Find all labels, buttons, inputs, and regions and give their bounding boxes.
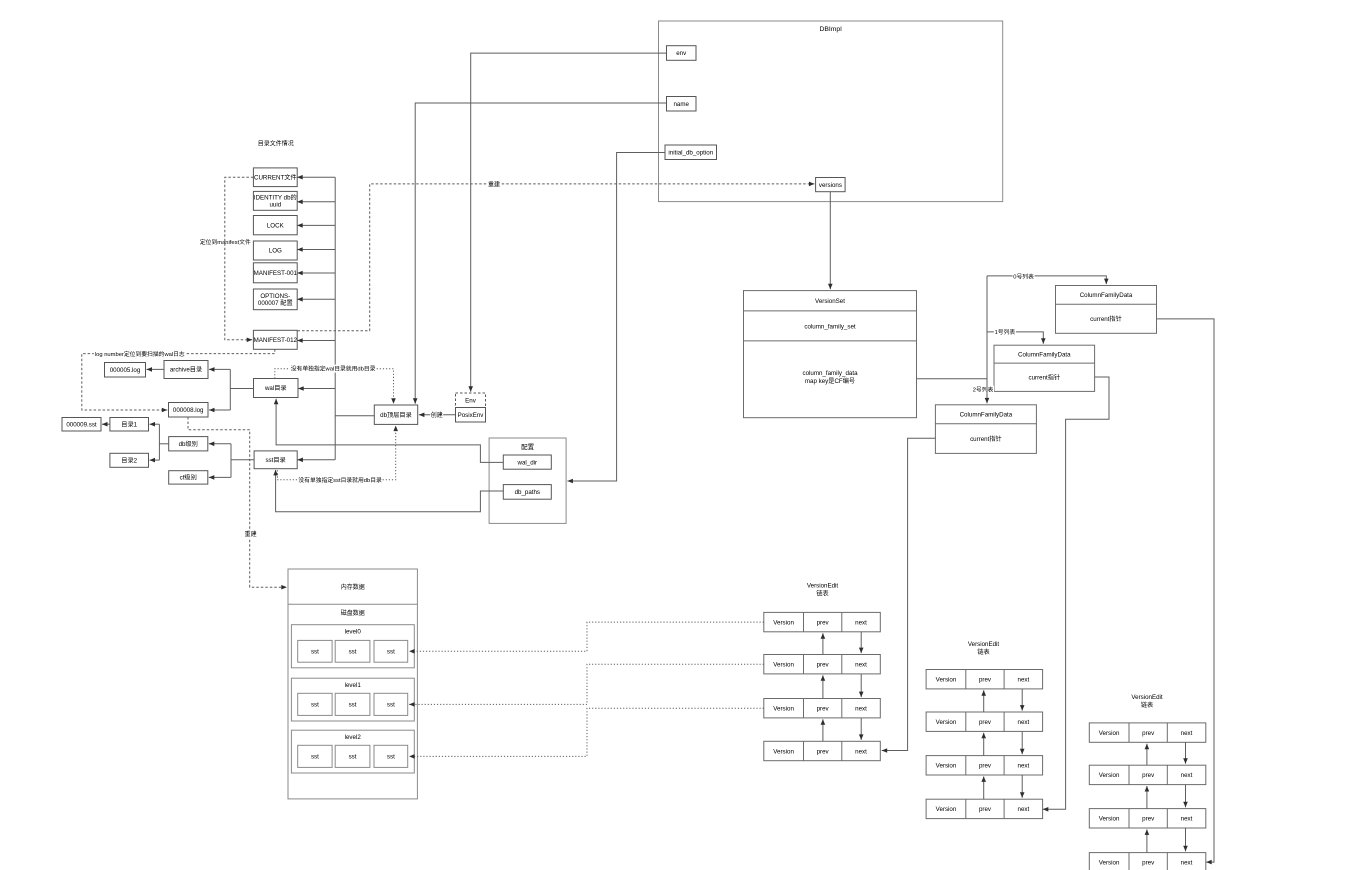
svg-text:配置: 配置 xyxy=(521,441,535,451)
svg-text:0号列表: 0号列表 xyxy=(1013,271,1034,280)
box VersionEdit1 row1 xyxy=(764,612,881,631)
svg-text:目录1: 目录1 xyxy=(121,420,137,429)
svg-text:定位到manifest文件: 定位到manifest文件 xyxy=(200,237,251,246)
svg-text:Version: Version xyxy=(1099,728,1120,737)
svg-text:sst: sst xyxy=(311,700,319,709)
wire db_paths to sst目录 xyxy=(276,470,504,512)
svg-text:Env: Env xyxy=(465,396,477,405)
svg-text:level2: level2 xyxy=(345,732,362,741)
wire VersionSet to cfd junction xyxy=(917,378,988,380)
wire junction vertical wal xyxy=(229,369,231,410)
wire initial_db_option to 配置 xyxy=(567,153,665,482)
wire trunk to sst目录 xyxy=(297,459,335,461)
wire trunk vertical xyxy=(334,177,336,460)
svg-text:sst目录: sst目录 xyxy=(265,455,285,464)
svg-text:Version: Version xyxy=(773,746,794,755)
label VersionEdit3 title xyxy=(1131,692,1163,709)
label 配置 title xyxy=(521,441,535,451)
svg-text:没有单独指定sst目录就用db目录: 没有单独指定sst目录就用db目录 xyxy=(298,475,382,484)
svg-text:db_paths: db_paths xyxy=(515,487,540,496)
label VersionEdit1 title xyxy=(807,581,839,598)
wire name to db顶层目录 xyxy=(415,103,666,404)
wire trunk to MANIFEST-001 xyxy=(297,272,335,274)
svg-text:PosixEnv: PosixEnv xyxy=(458,410,485,419)
wire sst目录 left junction xyxy=(231,459,254,461)
wire junction to 目录1 xyxy=(150,423,160,425)
box env xyxy=(667,46,697,61)
label log number定位到要扫描的wal日志 xyxy=(94,349,186,358)
svg-text:重建: 重建 xyxy=(488,180,500,189)
svg-text:000005.log: 000005.log xyxy=(110,365,141,374)
svg-text:重建: 重建 xyxy=(245,529,257,538)
box level1 sst2 xyxy=(335,693,370,715)
box level0 xyxy=(291,625,414,668)
svg-text:目录文件情况: 目录文件情况 xyxy=(258,139,294,148)
svg-text:sst: sst xyxy=(311,647,319,656)
wire dashed 定位到manifest xyxy=(225,177,254,339)
svg-text:next: next xyxy=(855,704,867,713)
label 1号列表 xyxy=(994,327,1016,336)
box level1 xyxy=(291,678,414,721)
box VersionEdit1 row4 xyxy=(764,741,881,760)
box ColumnFamilyData 2 xyxy=(935,405,1036,454)
box archive目录 xyxy=(164,361,208,379)
svg-text:current指针: current指针 xyxy=(970,434,1002,443)
svg-text:ColumnFamilyData: ColumnFamilyData xyxy=(1080,290,1133,299)
svg-text:链表: 链表 xyxy=(1141,700,1153,709)
wire junction to 目录2 xyxy=(150,459,160,461)
box VersionEdit3 row2 xyxy=(1089,765,1206,784)
svg-text:db顶层目录: db顶层目录 xyxy=(380,410,412,419)
wire VersionEdit2 next arrow 1 xyxy=(1021,689,1023,711)
box db_paths xyxy=(503,485,551,500)
box level0 sst2 xyxy=(335,640,370,662)
wire VersionEdit2 prev arrow 3 xyxy=(983,776,985,799)
wire wal_dir to wal目录 xyxy=(276,399,503,463)
svg-text:level0: level0 xyxy=(345,627,362,636)
svg-text:next: next xyxy=(1181,770,1193,779)
svg-text:archive目录: archive目录 xyxy=(170,365,202,374)
box wal目录 xyxy=(254,379,299,398)
wire dotted row2 to level1 sst xyxy=(409,664,764,704)
svg-text:prev: prev xyxy=(979,761,992,770)
svg-text:目录2: 目录2 xyxy=(121,456,137,465)
box CURRENT文件 xyxy=(253,168,297,187)
svg-text:MANIFEST-012: MANIFEST-012 xyxy=(254,335,298,344)
box wal_dir xyxy=(503,455,551,469)
svg-text:sst: sst xyxy=(387,752,395,761)
box VersionEdit3 row3 xyxy=(1089,809,1206,828)
svg-text:sst: sst xyxy=(349,700,357,709)
wire dotted sst fallback xyxy=(278,426,396,480)
wire PosixEnv 创建 db顶层目录 xyxy=(419,414,456,416)
box 000005.log xyxy=(105,363,146,378)
wire wal目录 left junction xyxy=(230,388,253,390)
box level2 sst1 xyxy=(298,745,332,767)
box VersionEdit3 row1 xyxy=(1089,723,1206,742)
svg-text:next: next xyxy=(855,617,867,626)
box cf级别 xyxy=(169,471,208,484)
svg-text:ColumnFamilyData: ColumnFamilyData xyxy=(960,410,1013,419)
box level1 sst1 xyxy=(298,693,332,715)
box OPTIONS-000007配置 xyxy=(253,289,297,310)
svg-text:磁盘数据: 磁盘数据 xyxy=(341,608,365,617)
box 内存数据 container xyxy=(288,569,417,799)
box VersionEdit2 row3 xyxy=(926,756,1043,775)
box VersionEdit3 row4 xyxy=(1089,853,1206,870)
label 没有单独指定wal目录就用db目录 xyxy=(290,364,376,373)
wire junction to db级别 xyxy=(209,443,231,445)
label VersionEdit2 title xyxy=(968,639,1000,656)
svg-text:LOCK: LOCK xyxy=(267,220,285,229)
wire trunk to OPTIONS xyxy=(297,298,335,300)
wire VersionEdit3 prev arrow 2 xyxy=(1146,786,1148,809)
svg-text:Version: Version xyxy=(1099,858,1120,867)
svg-text:VersionSet: VersionSet xyxy=(815,296,845,305)
box 000008.log xyxy=(169,403,209,418)
box 目录1 xyxy=(110,418,149,432)
svg-text:cf级别: cf级别 xyxy=(180,473,197,482)
svg-text:initial_db_option: initial_db_option xyxy=(668,148,713,157)
svg-text:000007 配置: 000007 配置 xyxy=(258,298,293,307)
svg-text:prev: prev xyxy=(1142,814,1155,823)
box name xyxy=(667,97,697,112)
svg-text:env: env xyxy=(676,48,687,57)
svg-text:next: next xyxy=(1181,728,1193,737)
wire db级别 left junction xyxy=(159,443,168,445)
label 没有单独指定sst目录就用db目录 xyxy=(298,475,382,484)
svg-text:current指针: current指针 xyxy=(1028,373,1060,382)
svg-text:MANIFEST-001: MANIFEST-001 xyxy=(254,268,298,277)
svg-text:Version: Version xyxy=(936,675,957,684)
svg-text:Version: Version xyxy=(936,717,957,726)
svg-text:next: next xyxy=(1018,675,1030,684)
svg-text:next: next xyxy=(1181,858,1193,867)
svg-text:sst: sst xyxy=(311,752,319,761)
svg-text:2号列表: 2号列表 xyxy=(973,385,994,394)
box level2 sst3 xyxy=(374,745,408,767)
wire junction to archive目录 xyxy=(209,368,230,370)
wire VersionEdit1 next arrow 1 xyxy=(860,632,862,653)
label 目录文件情况 xyxy=(258,139,294,148)
svg-text:name: name xyxy=(673,99,689,108)
box ColumnFamilyData 1 xyxy=(994,345,1095,391)
svg-text:prev: prev xyxy=(1142,858,1155,867)
svg-text:prev: prev xyxy=(979,804,992,813)
wire dashed 重建 manifest to versions xyxy=(298,184,815,331)
svg-text:sst: sst xyxy=(349,752,357,761)
label DBImpl title xyxy=(819,23,842,33)
box LOCK xyxy=(253,216,297,235)
wire dotted row3 to level2 sst xyxy=(409,708,764,756)
svg-text:log number定位到要扫描的wal日志: log number定位到要扫描的wal日志 xyxy=(95,349,185,358)
svg-text:prev: prev xyxy=(979,675,992,684)
svg-text:000009.sst: 000009.sst xyxy=(66,420,97,429)
svg-text:DBImpl: DBImpl xyxy=(819,23,842,33)
svg-text:uuid: uuid xyxy=(269,200,281,209)
svg-text:CURRENT文件: CURRENT文件 xyxy=(254,173,297,182)
box LOG xyxy=(253,241,297,260)
box level0 sst1 xyxy=(298,640,332,662)
svg-text:prev: prev xyxy=(817,617,830,626)
wire 1号列表 to CFD1 xyxy=(987,332,1043,344)
wire trunk to CURRENT文件 xyxy=(297,176,335,178)
svg-text:wal目录: wal目录 xyxy=(264,383,287,392)
box initial_db_option xyxy=(665,145,717,160)
svg-text:创建: 创建 xyxy=(431,410,443,419)
svg-text:Version: Version xyxy=(773,704,794,713)
svg-text:1号列表: 1号列表 xyxy=(995,327,1016,336)
wire CFD0 to VersionEdit3 xyxy=(1157,319,1215,862)
wire VersionEdit1 prev arrow 1 xyxy=(822,633,824,654)
box Env xyxy=(456,393,486,408)
svg-text:Version: Version xyxy=(773,617,794,626)
svg-text:wal_dir: wal_dir xyxy=(516,457,537,466)
wire dashed log number xyxy=(82,349,275,410)
box 配置 container xyxy=(489,438,566,523)
box ColumnFamilyData 0 xyxy=(1056,286,1157,334)
wire VersionEdit2 next arrow 3 xyxy=(1021,775,1023,798)
svg-text:next: next xyxy=(855,660,867,669)
svg-text:Version: Version xyxy=(936,761,957,770)
wire VersionEdit2 prev arrow 1 xyxy=(983,690,985,712)
svg-text:000008.log: 000008.log xyxy=(173,405,204,414)
wire VersionEdit1 prev arrow 2 xyxy=(822,675,824,698)
box db级别 xyxy=(169,437,208,451)
box VersionEdit1 row2 xyxy=(764,655,881,674)
wire dotted row1 to level0 sst xyxy=(409,622,764,651)
box level1 sst3 xyxy=(374,693,408,715)
wire VersionEdit3 next arrow 1 xyxy=(1185,742,1187,764)
wire VersionEdit1 prev arrow 3 xyxy=(822,719,824,741)
svg-text:db级别: db级别 xyxy=(179,439,198,448)
box 目录2 xyxy=(110,453,149,467)
box 000009.sst xyxy=(62,418,101,432)
box level0 sst3 xyxy=(374,640,408,662)
box level2 sst2 xyxy=(335,745,370,767)
wire db顶层目录 to trunk xyxy=(335,415,374,417)
svg-text:sst: sst xyxy=(387,700,395,709)
wire CFD1 to VersionEdit2 xyxy=(1043,377,1109,809)
box VersionEdit2 row4 xyxy=(926,799,1043,818)
box IDENTITY db的uuid xyxy=(253,191,297,210)
box sst目录 xyxy=(254,451,297,469)
wire trunk to LOG xyxy=(297,249,335,251)
svg-text:LOG: LOG xyxy=(269,246,282,255)
svg-text:sst: sst xyxy=(349,647,357,656)
svg-text:prev: prev xyxy=(817,746,830,755)
svg-text:没有单独指定wal目录就用db目录: 没有单独指定wal目录就用db目录 xyxy=(291,364,376,373)
box MANIFEST-012 xyxy=(253,330,297,349)
wire 目录1 to 000009.sst xyxy=(102,423,110,425)
box PosixEnv xyxy=(456,408,486,423)
wire dotted wal fallback xyxy=(275,369,394,404)
svg-text:Version: Version xyxy=(1099,814,1120,823)
label 创建 xyxy=(430,410,443,419)
wire versions to VersionSet xyxy=(829,192,831,290)
wire VersionEdit1 next arrow 2 xyxy=(860,674,862,697)
label 定位到manifest文件 xyxy=(200,237,251,246)
svg-text:next: next xyxy=(1018,761,1030,770)
svg-text:Version: Version xyxy=(773,660,794,669)
box VersionEdit2 row2 xyxy=(926,712,1043,731)
box versions xyxy=(816,178,846,192)
box MANIFEST-001 xyxy=(253,263,297,283)
svg-text:versions: versions xyxy=(819,180,842,189)
wire archive目录 to 000005.log xyxy=(147,368,165,370)
label 2号列表 xyxy=(972,385,994,394)
svg-text:next: next xyxy=(1181,814,1193,823)
wire env to Env xyxy=(471,53,667,392)
wire junction vertical to CFD2 xyxy=(986,276,988,404)
wire junction to cf级别 xyxy=(209,476,231,478)
wire junction to 000008.log xyxy=(209,409,230,411)
svg-text:column_family_set: column_family_set xyxy=(804,321,856,330)
svg-text:prev: prev xyxy=(979,717,992,726)
svg-text:map key是CF编号: map key是CF编号 xyxy=(805,376,855,385)
wire 0号列表 to CFD0 xyxy=(987,276,1106,284)
box db顶层目录 xyxy=(374,405,417,424)
svg-text:链表: 链表 xyxy=(977,647,989,656)
wire dashed 重建 wal xyxy=(188,417,287,587)
wire VersionEdit2 prev arrow 2 xyxy=(983,733,985,756)
svg-text:内存数据: 内存数据 xyxy=(341,582,365,591)
box DBImpl container xyxy=(659,21,1003,202)
wire trunk to IDENTITY xyxy=(297,201,335,203)
wire CFD2 to VersionEdit1 xyxy=(882,438,936,750)
label 0号列表 xyxy=(1013,271,1035,280)
wire trunk to MANIFEST-012 xyxy=(297,340,335,342)
box VersionSet xyxy=(744,291,917,418)
wire junction vertical 目录 xyxy=(158,424,160,460)
svg-text:prev: prev xyxy=(1142,728,1155,737)
wire VersionEdit2 next arrow 2 xyxy=(1021,731,1023,754)
label 重建 top xyxy=(488,180,501,189)
box level2 xyxy=(291,730,414,773)
svg-text:ColumnFamilyData: ColumnFamilyData xyxy=(1018,349,1071,358)
wire VersionEdit3 next arrow 3 xyxy=(1185,828,1187,851)
svg-text:next: next xyxy=(1018,717,1030,726)
box VersionEdit1 row3 xyxy=(764,699,881,718)
wire junction vertical 级别 xyxy=(230,444,232,478)
wire trunk to wal目录 xyxy=(298,388,335,390)
wire VersionEdit3 next arrow 2 xyxy=(1185,785,1187,808)
wire VersionEdit1 next arrow 3 xyxy=(860,718,862,740)
svg-text:prev: prev xyxy=(1142,770,1155,779)
svg-text:current指针: current指针 xyxy=(1090,314,1122,323)
svg-text:level1: level1 xyxy=(345,680,362,689)
svg-text:prev: prev xyxy=(817,660,830,669)
svg-text:Version: Version xyxy=(1099,770,1120,779)
svg-text:prev: prev xyxy=(817,704,830,713)
svg-text:链表: 链表 xyxy=(816,589,828,598)
svg-text:next: next xyxy=(1018,804,1030,813)
svg-text:Version: Version xyxy=(936,804,957,813)
label 重建 left xyxy=(244,529,257,538)
wire VersionEdit3 prev arrow 1 xyxy=(1146,744,1148,766)
svg-text:next: next xyxy=(855,746,867,755)
svg-text:sst: sst xyxy=(387,647,395,656)
wire trunk to LOCK xyxy=(297,224,335,226)
box VersionEdit2 row1 xyxy=(926,670,1043,689)
wire VersionEdit3 prev arrow 3 xyxy=(1146,829,1148,852)
